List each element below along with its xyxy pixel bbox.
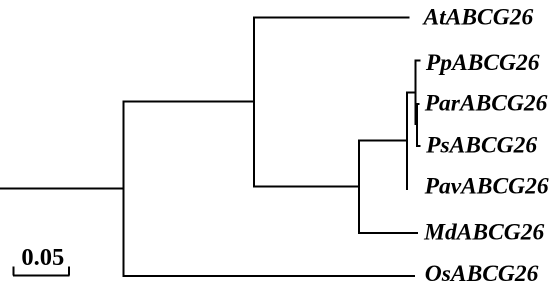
- node Md-clade vertical: [358, 140, 360, 234]
- wire prunus clade branch: [254, 186, 360, 188]
- wire root branch: [0, 187, 125, 189]
- node root vertical: [123, 101, 125, 277]
- scale bar: [13, 275, 70, 277]
- svg-text:PsABCG26: PsABCG26: [425, 133, 537, 159]
- node Pp-clade vertical: [415, 60, 417, 125]
- wire PsABCG26 branch: [417, 145, 421, 147]
- svg-text:PavABCG26: PavABCG26: [424, 174, 549, 200]
- node At-clade vertical: [253, 17, 255, 188]
- wire OsABCG26 branch: [124, 275, 416, 277]
- svg-text:OsABCG26: OsABCG26: [425, 261, 539, 287]
- wire upper clade branch: [124, 101, 255, 103]
- node Pav-clade vertical: [406, 92, 408, 191]
- wire Pav-clade branch: [359, 140, 408, 142]
- svg-text:0.05: 0.05: [21, 244, 64, 271]
- svg-text:ParABCG26: ParABCG26: [424, 90, 548, 116]
- node ParPs-clade vertical: [416, 103, 418, 147]
- wire MdABCG26 branch: [359, 232, 418, 234]
- wire Pp-clade branch: [407, 92, 417, 94]
- wire AtABCG26 branch: [254, 17, 410, 19]
- svg-text:PpABCG26: PpABCG26: [425, 50, 540, 76]
- svg-text:AtABCG26: AtABCG26: [422, 5, 534, 31]
- svg-text:MdABCG26: MdABCG26: [423, 220, 544, 246]
- wire PpABCG26 branch: [416, 60, 421, 62]
- wire ParABCG26 branch: [417, 103, 420, 105]
